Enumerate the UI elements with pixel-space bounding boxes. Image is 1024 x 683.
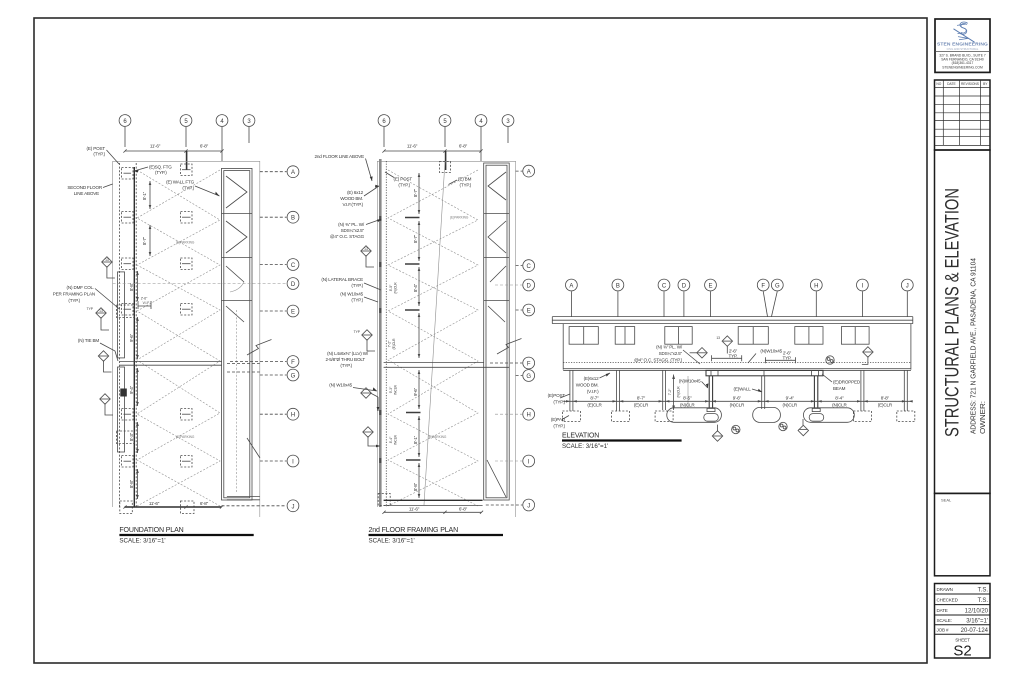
window F pair — [738, 327, 768, 345]
svg-text:SECOND FLOOR: SECOND FLOOR — [67, 185, 102, 190]
svg-text:(E)CLR: (E)CLR — [878, 403, 893, 408]
row bubble A — [260, 166, 299, 178]
svg-text:13: 13 — [364, 247, 368, 251]
svg-text:(E)CLR: (E)CLR — [587, 403, 602, 408]
label SECOND FLOOR LINE ABOVE — [67, 184, 112, 196]
svg-text:8'-5": 8'-5" — [683, 396, 692, 401]
svg-text:(N)W10x45: (N)W10x45 — [679, 378, 701, 383]
svg-text:8'-1": 8'-1" — [413, 435, 418, 444]
title underline — [562, 439, 682, 441]
elevation dimension line — [563, 400, 911, 402]
svg-text:(TYP.): (TYP.) — [351, 283, 363, 288]
new grade beam F rounded — [753, 407, 781, 422]
existing pad B dashed — [612, 411, 630, 422]
top dimension line — [382, 144, 482, 153]
bottom wall thick line — [384, 499, 483, 501]
svg-text:7'-2": 7'-2" — [668, 388, 672, 395]
svg-text:(N) W10x45: (N) W10x45 — [329, 383, 352, 388]
window I pair — [841, 327, 869, 345]
row bubble D + row dash — [495, 279, 535, 291]
svg-text:6'-8": 6'-8" — [200, 501, 209, 506]
label (E)6x12 WOOD BM — [576, 373, 610, 394]
shear diamond top 1 — [690, 348, 708, 358]
grid bubble 6 — [378, 115, 390, 147]
dim 8'-7" (E)CLR 2 — [634, 396, 649, 408]
svg-text:ADDRESS: 721 N GARFIELD AVE.,: ADDRESS: 721 N GARFIELD AVE., PASADENA, … — [968, 258, 977, 434]
svg-text:TYP.: TYP. — [729, 353, 738, 358]
lower shaft diagonal — [487, 460, 506, 497]
svg-text:TYP: TYP — [354, 330, 361, 334]
svg-text:JOB #: JOB # — [937, 628, 949, 633]
svg-text:SDS¼"x2.5": SDS¼"x2.5" — [341, 228, 365, 233]
(E) wood beam gray band — [379, 159, 382, 507]
svg-text:(TYP.): (TYP.) — [93, 152, 105, 157]
logo box — [935, 19, 990, 72]
svg-text:SDS¼"x2.5": SDS¼"x2.5" — [659, 351, 683, 356]
svg-text:8'-4": 8'-4" — [413, 283, 418, 292]
row bubble G — [516, 370, 535, 382]
svg-text:CIVIL AND STRUCTURAL: CIVIL AND STRUCTURAL — [947, 47, 979, 51]
dim 8'-5" (N)CLR — [680, 396, 695, 408]
bottom thin line — [384, 505, 483, 507]
existing post C2 — [663, 370, 666, 410]
grid bubble F — [757, 279, 769, 316]
label (E)PAD TYP — [551, 416, 569, 429]
svg-text:8'-7": 8'-7" — [142, 236, 147, 245]
new W10x45 steel beam band — [706, 370, 823, 375]
label (E) 6x12 WOOD BM — [340, 185, 379, 207]
svg-text:D: D — [682, 284, 687, 290]
svg-text:E: E — [291, 310, 295, 316]
svg-text:(E)PARKING: (E)PARKING — [428, 435, 447, 439]
svg-text:(TYP.): (TYP.) — [460, 183, 472, 188]
svg-text:(N)CLR: (N)CLR — [394, 282, 398, 294]
shear diamond top 3 — [862, 347, 873, 365]
row bubble H — [260, 408, 299, 420]
tie beam double line — [384, 362, 510, 367]
svg-text:(TYP.): (TYP.) — [351, 298, 363, 303]
svg-text:SCALE: 3/16"=1': SCALE: 3/16"=1' — [369, 538, 415, 545]
joist span zigzag A — [137, 170, 220, 506]
callout circle bottom 1 — [732, 425, 740, 433]
svg-text:F: F — [761, 284, 765, 290]
label (N) W10x45 upper — [340, 292, 378, 303]
svg-text:A: A — [569, 284, 573, 290]
bottom footing square left — [120, 501, 133, 514]
short wall stub at grid 5 — [445, 151, 447, 170]
grid bubble 4 — [475, 115, 487, 161]
svg-text:6'-8": 6'-8" — [459, 507, 468, 512]
svg-text:11'-6": 11'-6" — [150, 144, 161, 149]
label (E)POST TYP — [548, 393, 570, 405]
tie beam double line — [120, 361, 222, 365]
bottom left dashed square — [378, 494, 390, 506]
grid bubble D — [678, 279, 690, 316]
svg-text:STRUCTURAL PLANS & ELEVATION: STRUCTURAL PLANS & ELEVATION — [942, 188, 964, 437]
label (E) WALL FTG (TYP.) — [166, 180, 219, 197]
grid bubble J — [901, 279, 913, 316]
svg-text:TYP: TYP — [87, 307, 94, 311]
svg-text:J: J — [292, 504, 295, 510]
svg-text:(E) WALL FTG: (E) WALL FTG — [166, 180, 194, 185]
holdown post rect upper — [118, 272, 125, 358]
shear tag diamond mid2 — [354, 330, 375, 351]
callout circle bottom 2 — [779, 422, 787, 430]
interior vertical dim lines — [418, 173, 421, 498]
svg-text:(TYP.): (TYP.) — [182, 186, 194, 191]
svg-text:8'-8": 8'-8" — [413, 482, 418, 491]
existing post B — [616, 370, 619, 411]
svg-text:J: J — [527, 504, 530, 510]
svg-text:V.I.F: V.I.F — [143, 301, 150, 305]
top dimension line — [123, 144, 223, 153]
revision table — [935, 80, 991, 150]
svg-text:PER FRAMING PLAN: PER FRAMING PLAN — [53, 292, 95, 297]
svg-text:H: H — [291, 413, 295, 419]
svg-text:(E)PARKING: (E)PARKING — [450, 216, 469, 220]
dim 9'-4" (N)CLR — [783, 396, 798, 408]
svg-text:E: E — [527, 309, 531, 315]
svg-text:STENENGINEERING.COM: STENENGINEERING.COM — [942, 66, 983, 70]
svg-text:(E)PARKING: (E)PARKING — [176, 241, 195, 245]
svg-text:J: J — [906, 284, 909, 290]
label (E)SQ. FTG (TYP.) — [134, 165, 172, 176]
title underline — [119, 534, 253, 536]
existing pad J dashed — [897, 411, 915, 422]
svg-text:20-07-124: 20-07-124 — [961, 628, 989, 634]
existing pad A dashed — [563, 411, 581, 422]
svg-text:ELEVATION: ELEVATION — [562, 433, 599, 440]
label (N) W10x45 lower — [329, 383, 377, 392]
left wall thick line — [133, 167, 135, 507]
window C pair — [665, 327, 692, 345]
svg-text:2'-6": 2'-6" — [141, 297, 148, 301]
svg-text:8'-8": 8'-8" — [129, 479, 134, 488]
svg-text:C: C — [662, 284, 667, 290]
svg-text:SCALE: 3/16"=1': SCALE: 3/16"=1' — [562, 443, 608, 450]
lower shaft diagonal — [247, 438, 260, 458]
holdown post rect lower — [118, 367, 125, 452]
svg-text:G: G — [291, 374, 296, 380]
svg-text:2nd FLOOR FRAMING PLAN: 2nd FLOOR FRAMING PLAN — [369, 527, 459, 534]
svg-text:SCALE: 3/16"=1': SCALE: 3/16"=1' — [119, 538, 165, 545]
svg-text:(N) ⅜" PL. W/: (N) ⅜" PL. W/ — [338, 222, 365, 227]
label (E) POST (TYP.) — [87, 146, 119, 164]
label (E)DROPPED BEAM — [822, 374, 861, 391]
existing post A — [570, 370, 573, 411]
row bubble D + dash-dot row line — [113, 278, 299, 290]
svg-text:(E) 6x12: (E) 6x12 — [347, 190, 364, 195]
row bubble A — [516, 165, 535, 177]
svg-text:(N)CLR: (N)CLR — [730, 403, 745, 408]
row bubble B — [260, 211, 299, 223]
joist span zigzag A — [388, 170, 478, 506]
svg-text:A: A — [291, 170, 295, 176]
lower shaft dashed center — [236, 310, 238, 492]
grid bubble 4 — [216, 115, 228, 161]
svg-text:G: G — [526, 374, 531, 380]
svg-text:CHECKED: CHECKED — [937, 598, 959, 603]
svg-text:(E)SQ. FTG: (E)SQ. FTG — [149, 165, 172, 170]
svg-text:NO: NO — [936, 82, 941, 86]
svg-text:13: 13 — [99, 309, 103, 313]
dashed square top grid5 — [440, 162, 451, 173]
svg-text:2nd FLOOR LINE ABOVE: 2nd FLOOR LINE ABOVE — [314, 154, 364, 159]
footing squares on left wall — [122, 168, 134, 468]
grid bubble 3 — [502, 115, 514, 143]
svg-text:SCALE:: SCALE: — [937, 618, 952, 623]
bottom wall thick line with dim — [123, 501, 223, 509]
row bubble H + row dash — [495, 408, 535, 420]
grid bubble H — [810, 279, 822, 316]
sloped existing beam line — [424, 161, 445, 505]
label (N) DMF COL. PER FRAMING PLAN — [53, 285, 120, 310]
row bubble E — [516, 304, 535, 316]
svg-text:D: D — [291, 282, 296, 288]
svg-text:(E)PAD: (E)PAD — [551, 417, 566, 422]
dim 8'-7" (E)CLR — [587, 396, 602, 408]
svg-text:C: C — [527, 264, 532, 270]
bay dim rotated 9'-3" — [389, 384, 398, 395]
interior vertical dim lines — [136, 181, 151, 499]
svg-text:(TYP.): (TYP.) — [155, 170, 167, 175]
svg-text:2-5/8"Ø THRU BOLT: 2-5/8"Ø THRU BOLT — [326, 357, 366, 362]
svg-text:INCLR: INCLR — [394, 434, 398, 445]
beam band dark ticks — [379, 216, 381, 463]
svg-text:@4" O.C. STAGG. (TYP.): @4" O.C. STAGG. (TYP.) — [634, 358, 683, 363]
label (N) LATERAL BRACE — [321, 277, 381, 290]
logo box divider — [935, 51, 990, 53]
svg-text:13: 13 — [716, 336, 720, 340]
existing pad I dashed — [853, 411, 871, 422]
svg-text:BEAM: BEAM — [833, 386, 846, 391]
dim 8'-8" (E)CLR — [878, 396, 893, 408]
row bubble C — [516, 260, 535, 272]
svg-text:B: B — [616, 284, 620, 290]
svg-text:(TYP.): (TYP.) — [398, 183, 410, 188]
dotted edge line — [385, 161, 387, 507]
shear diamond bottom 2 — [798, 419, 808, 436]
svg-text:WOOD BM.: WOOD BM. — [576, 382, 599, 387]
svg-text:V.I.F.(TYP.): V.I.F.(TYP.) — [342, 202, 363, 207]
svg-text:9'-3": 9'-3" — [389, 386, 393, 393]
svg-text:(TYP.): (TYP.) — [553, 399, 565, 404]
svg-text:(N)CLR: (N)CLR — [832, 403, 847, 408]
door swing marks in shaft — [226, 176, 247, 322]
svg-text:F: F — [291, 360, 295, 366]
existing pad C dashed — [655, 411, 673, 422]
joist hanger bars — [405, 218, 421, 461]
bottom footing square mid — [181, 501, 195, 514]
svg-text:(N)CLR: (N)CLR — [680, 403, 695, 408]
row bubble C — [260, 259, 299, 271]
footing center ticks — [182, 170, 191, 462]
shear tag diamond 1 — [102, 257, 115, 278]
interior footing squares grid 5 — [181, 164, 193, 467]
seal box — [935, 493, 991, 575]
svg-text:8'-5": 8'-5" — [389, 284, 393, 291]
floor band — [563, 369, 911, 371]
svg-text:(E)PARKING: (E)PARKING — [176, 435, 195, 439]
section break line — [497, 339, 522, 355]
HDU dashed box lower — [117, 431, 135, 444]
joist span zigzag B — [137, 170, 220, 506]
row bubble J — [486, 499, 535, 511]
dim 2'-6" TYP right — [765, 350, 795, 363]
svg-text:T.S.: T.S. — [978, 588, 989, 594]
svg-text:11'-6": 11'-6" — [407, 144, 418, 149]
svg-text:S2: S2 — [953, 643, 971, 660]
svg-text:REVISIONS: REVISIONS — [961, 82, 980, 86]
roof band — [552, 317, 913, 324]
svg-text:(E)DROPPED: (E)DROPPED — [833, 379, 861, 384]
bay dim rotated 8'-4" low — [389, 434, 398, 445]
label (N) L4x6 THRU BOLT — [326, 351, 369, 368]
dim 8'-4" (N)CLR — [832, 396, 847, 408]
grid bubble 5 — [439, 115, 451, 147]
svg-text:(E) POST: (E) POST — [87, 146, 106, 151]
existing post J — [904, 370, 907, 411]
svg-text:8'-4": 8'-4" — [835, 396, 844, 401]
bay dim rotated 9'-5" INCLR — [389, 282, 398, 294]
svg-text:(V.I.F.): (V.I.F.) — [587, 389, 599, 394]
shear tag diamond 2 — [87, 307, 109, 330]
new HSS post E — [707, 376, 715, 412]
row bubble G — [260, 369, 299, 381]
svg-text:(N) LATERAL BRACE: (N) LATERAL BRACE — [321, 277, 363, 282]
row bubble I — [260, 455, 299, 467]
svg-text:9'-6": 9'-6" — [413, 387, 418, 396]
svg-text:DATE: DATE — [947, 82, 956, 86]
svg-text:TYP.: TYP. — [783, 355, 792, 360]
rotated dim 7'-2" at post C — [668, 375, 680, 411]
window H pair — [795, 327, 823, 345]
door swing marks in shaft — [488, 172, 506, 322]
svg-text:6'-8": 6'-8" — [200, 144, 209, 149]
label (N) PL W/ SDS stagger — [634, 345, 700, 365]
shear tag diamond mid4 — [363, 427, 380, 448]
svg-text:STEN ENGINEERING: STEN ENGINEERING — [937, 41, 988, 47]
svg-text:B: B — [291, 216, 295, 222]
svg-text:SEAL: SEAL — [941, 498, 952, 503]
svg-text:T.S.: T.S. — [978, 598, 989, 604]
svg-text:(TYP.): (TYP.) — [340, 363, 352, 368]
svg-text:DRAWN: DRAWN — [937, 587, 953, 592]
svg-text:(TYP.): (TYP.) — [68, 298, 80, 303]
bottom dimension line — [382, 507, 483, 514]
row bubble J — [222, 500, 299, 512]
svg-text:8'-7": 8'-7" — [637, 396, 646, 401]
svg-text:FOUNDATION PLAN: FOUNDATION PLAN — [119, 527, 183, 534]
svg-text:9'-6": 9'-6" — [733, 396, 742, 401]
cripple wall line — [687, 376, 689, 408]
thin edge line — [376, 161, 378, 507]
label (N) TIE BM — [78, 338, 118, 361]
shear tag diamond mid1 — [361, 246, 374, 267]
svg-text:8'-4": 8'-4" — [389, 436, 393, 443]
svg-text:(N) DMF COL.: (N) DMF COL. — [67, 285, 94, 290]
label (N)W10x45 upper — [748, 349, 783, 364]
svg-text:WOOD BM.: WOOD BM. — [340, 196, 363, 201]
svg-text:8'-7": 8'-7" — [413, 188, 418, 197]
svg-text:C: C — [291, 263, 296, 269]
svg-text:13: 13 — [105, 258, 109, 262]
new grade beam E rounded — [667, 408, 722, 423]
svg-text:INCLR: INCLR — [394, 384, 398, 395]
svg-text:(E)6x12: (E)6x12 — [584, 376, 599, 381]
svg-text:(N) L4x6x⅜" (LLV) W/: (N) L4x6x⅜" (LLV) W/ — [327, 351, 369, 356]
svg-text:8'-7": 8'-7" — [413, 234, 418, 243]
svg-text:G: G — [775, 284, 780, 290]
svg-text:A: A — [527, 170, 531, 176]
dim 9'-6" (N)CLR — [730, 396, 745, 408]
svg-text:7'-2": 7'-2" — [388, 340, 392, 347]
floor line dotted — [563, 362, 911, 364]
info table — [935, 584, 991, 659]
grid bubble C — [658, 279, 670, 316]
svg-text:(N)CLR: (N)CLR — [676, 386, 680, 398]
new grade beam H rounded — [804, 408, 855, 423]
label (E) BM (TYP.) — [449, 177, 472, 188]
stair shaft double wall — [484, 163, 510, 500]
row bubble E — [260, 305, 299, 317]
dimension ticks — [566, 400, 913, 402]
row bubble I + row dash — [495, 455, 535, 467]
label (E)WALL — [733, 386, 762, 392]
shear tag diamond 4 — [100, 394, 113, 415]
label (E) POST (TYP.) — [385, 172, 412, 188]
svg-text:6'-8": 6'-8" — [459, 144, 468, 149]
svg-text:H: H — [814, 284, 818, 290]
small beam mark — [120, 389, 127, 397]
window A pair — [569, 327, 598, 345]
grid bubble 3 — [243, 115, 255, 143]
grid bubble I — [857, 279, 869, 316]
label (N) PL W/ SDS — [330, 219, 382, 239]
small dim 2'-6" V.I.F — [138, 297, 151, 310]
svg-text:(E) POST: (E) POST — [394, 177, 413, 182]
sheet title box — [935, 150, 991, 493]
svg-text:E: E — [708, 284, 712, 290]
svg-text:(N) ⅜" PL. W/: (N) ⅜" PL. W/ — [656, 345, 683, 350]
label 2nd FLOOR LINE ABOVE — [314, 154, 372, 181]
svg-text:(E) BM: (E) BM — [458, 177, 472, 182]
shear diamond bottom 1 — [712, 425, 722, 442]
plan outer boundary — [113, 161, 260, 517]
grid bubble B — [612, 279, 624, 316]
shaft bottom closure — [227, 497, 260, 500]
svg-text:12/10/20: 12/10/20 — [965, 609, 989, 615]
svg-text:OWNER:: OWNER: — [978, 401, 987, 434]
plan top edge — [377, 161, 515, 517]
grid bubble G — [771, 279, 783, 316]
label (N)W10x45 mid — [679, 378, 709, 388]
svg-text:8'-8": 8'-8" — [881, 396, 890, 401]
svg-text:(N)CLR: (N)CLR — [783, 403, 798, 408]
callout circle top — [826, 356, 834, 364]
grid bubble A — [566, 279, 578, 316]
svg-text:LINE ABOVE: LINE ABOVE — [74, 191, 99, 196]
svg-text:(TYP.): (TYP.) — [553, 423, 565, 428]
svg-text:(E)WALL: (E)WALL — [733, 386, 751, 391]
dim 2'-6" TYP left — [712, 348, 742, 361]
row bubble F — [230, 356, 299, 368]
svg-text:11'-6": 11'-6" — [149, 501, 160, 506]
wall edges — [563, 324, 911, 370]
window B pair — [615, 327, 635, 345]
existing post I — [861, 370, 864, 411]
shear diamond top 2 — [716, 336, 732, 354]
